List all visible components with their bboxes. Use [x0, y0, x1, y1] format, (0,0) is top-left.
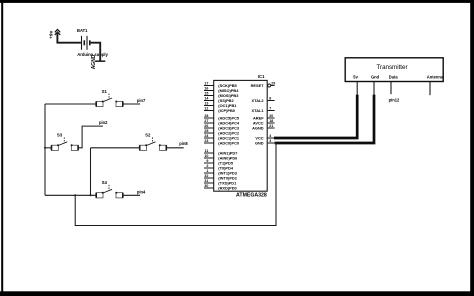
IC1 pin 20 AREF — [253, 114, 275, 121]
wire drop to bottom bus — [90, 148, 92, 196]
svg-text:14: 14 — [204, 96, 208, 100]
svg-text:15: 15 — [204, 91, 208, 95]
svg-text:16: 16 — [204, 86, 208, 90]
svg-text:IC1: IC1 — [258, 74, 265, 79]
IC1 pin 27 (ADC4)PC4 — [204, 119, 240, 126]
svg-text:9: 9 — [206, 159, 208, 163]
wire left bus vertical — [44, 104, 46, 195]
wire S3 to pin2 — [78, 126, 103, 148]
wire VCC to transmitter 5v (thick) — [274, 95, 357, 138]
IC1 pin 7 XTAL1 — [252, 106, 275, 113]
Transmitter Gnd pin stub — [373, 82, 375, 95]
battery BAT1 — [82, 36, 90, 50]
IC1 pin 1 (INT1)PD3 — [204, 169, 238, 176]
junction bottom bus / gnd drop — [74, 194, 76, 196]
svg-text:8: 8 — [269, 96, 271, 100]
IC1 pin 2 (T0)PD4 — [204, 164, 234, 171]
IC1 pin 15 (MOSI)PB3 — [204, 91, 239, 98]
svg-text:13: 13 — [204, 101, 208, 105]
wire GND branch down and to switch bus — [75, 143, 276, 226]
IC1 ATMEGA328 body — [214, 80, 268, 191]
IC1 pin 23 (ADC0)PC0 — [204, 139, 239, 146]
IC1 pin 4 VCC — [255, 134, 274, 141]
svg-text:Data: Data — [389, 75, 399, 80]
svg-text:pin2: pin2 — [99, 120, 108, 125]
svg-text:Antenna: Antenna — [427, 75, 444, 80]
svg-text:pin4: pin4 — [137, 189, 146, 194]
wire S1 to pin7 — [123, 103, 140, 105]
IC1 pin 24 (ADC1)PC1 — [204, 134, 240, 141]
Transmitter Data pin stub — [390, 82, 392, 95]
Transmitter 5v pin stub — [356, 82, 358, 95]
svg-text:5v: 5v — [353, 75, 358, 80]
svg-text:S2: S2 — [145, 133, 151, 138]
svg-text:18: 18 — [269, 119, 273, 123]
svg-text:(ADC0)PC0: (ADC0)PC0 — [218, 141, 239, 146]
junction bus/S3 — [44, 147, 46, 149]
svg-text:4: 4 — [269, 134, 271, 138]
IC1 pin 16 (MISO)PB4 — [204, 86, 239, 93]
svg-text:11: 11 — [205, 149, 209, 153]
svg-text:(ICP)PB0: (ICP)PB0 — [218, 108, 235, 113]
IC1 pin 32 (INT0)PD2 — [204, 174, 238, 181]
svg-text:25: 25 — [204, 129, 208, 133]
svg-text:17: 17 — [204, 81, 208, 85]
IC1 pin 11 (AIN1)PD7 — [204, 149, 237, 156]
IC1 pin 8 XTAL2 — [252, 96, 275, 103]
svg-text:32: 32 — [204, 174, 208, 178]
svg-text:10: 10 — [204, 154, 208, 158]
svg-text:24: 24 — [204, 134, 208, 138]
IC1 pin 3 GND — [255, 139, 275, 146]
junction bottom bus / S2 drop — [90, 194, 92, 196]
+9V power arrow symbol — [55, 29, 60, 35]
svg-text:RESET: RESET — [251, 83, 265, 88]
wire +9v to battery — [57, 33, 81, 43]
IC1 pin 30 (RXD)PD0 — [204, 184, 237, 191]
switch S1 — [96, 89, 123, 107]
IC1 pin 10 (AIN0)PD6 — [204, 154, 238, 161]
IC1 pin 25 (ADC2)PC2 — [204, 129, 240, 136]
svg-text:2: 2 — [206, 164, 208, 168]
svg-text:ATMEGA328: ATMEGA328 — [236, 193, 267, 199]
svg-text:12: 12 — [204, 106, 208, 110]
svg-text:3: 3 — [269, 139, 271, 143]
IC1 pin 28 (ADC5)PC5 — [204, 114, 240, 121]
svg-text:29: 29 — [271, 81, 275, 85]
IC1 pin 12 (ICP)PB0 — [204, 106, 235, 113]
IC1 pin 21 AGND — [252, 124, 274, 131]
svg-text:28: 28 — [204, 114, 208, 118]
svg-text:23: 23 — [204, 139, 208, 143]
svg-text:BAT1: BAT1 — [77, 28, 88, 33]
svg-text:1: 1 — [206, 169, 208, 173]
svg-text:20: 20 — [269, 114, 273, 118]
Transmitter Antenna pin stub — [429, 82, 431, 96]
wire S2 left to drop — [91, 147, 140, 149]
svg-text:GND: GND — [255, 141, 264, 146]
svg-text:21: 21 — [269, 124, 273, 128]
wire bus to S3 — [45, 147, 51, 149]
IC1 pin 29 RESET — [251, 81, 276, 88]
IC1 pin 13 (OC1)PB1 — [204, 101, 237, 108]
svg-text:XTAL2: XTAL2 — [252, 98, 265, 103]
svg-text:S1: S1 — [102, 89, 108, 94]
IC1 pin 14 (SS)PB2 — [204, 96, 234, 103]
ground AGND symbol — [95, 60, 105, 62]
svg-text:S3: S3 — [57, 133, 63, 138]
wire S2 to pin8 — [167, 147, 184, 149]
svg-text:pin12: pin12 — [389, 98, 400, 103]
wire battery to ground — [91, 43, 101, 61]
wire S4 to pin4 — [123, 194, 140, 196]
svg-text:26: 26 — [204, 124, 208, 128]
svg-text:Gnd: Gnd — [371, 75, 380, 80]
svg-text:7: 7 — [269, 106, 271, 110]
wire GND to transmitter Gnd (thick) — [275, 95, 374, 143]
junction GND branch — [275, 142, 277, 144]
wire bus to S1 — [45, 103, 96, 105]
svg-text:Transmitter: Transmitter — [376, 64, 407, 71]
svg-text:AGND: AGND — [91, 54, 97, 69]
svg-text:XTAL1: XTAL1 — [252, 108, 265, 113]
switch S2 — [140, 133, 167, 151]
svg-text:+9v: +9v — [49, 30, 55, 38]
switch S4 — [96, 180, 123, 198]
IC1 pin 9 (T1)PD5 — [204, 159, 234, 166]
IC1 pin 26 (ADC3)PC3 — [204, 124, 240, 131]
IC1 pin 31 (TXD)PD1 — [204, 179, 237, 186]
svg-text:27: 27 — [204, 119, 208, 123]
svg-text:pin8: pin8 — [179, 141, 188, 146]
svg-text:S4: S4 — [102, 180, 108, 185]
svg-text:AGND: AGND — [252, 126, 264, 131]
svg-text:31: 31 — [204, 179, 208, 183]
wire bottom bus — [45, 194, 96, 196]
svg-text:(RXD)PD0: (RXD)PD0 — [218, 186, 236, 191]
switch S3 — [51, 133, 78, 151]
Transmitter module box — [345, 58, 443, 82]
svg-text:30: 30 — [204, 184, 208, 188]
svg-text:pin7: pin7 — [137, 98, 146, 103]
IC1 pin 17 (SCK)PB5 — [204, 81, 238, 88]
IC1 pin 18 AVCC — [253, 119, 275, 126]
